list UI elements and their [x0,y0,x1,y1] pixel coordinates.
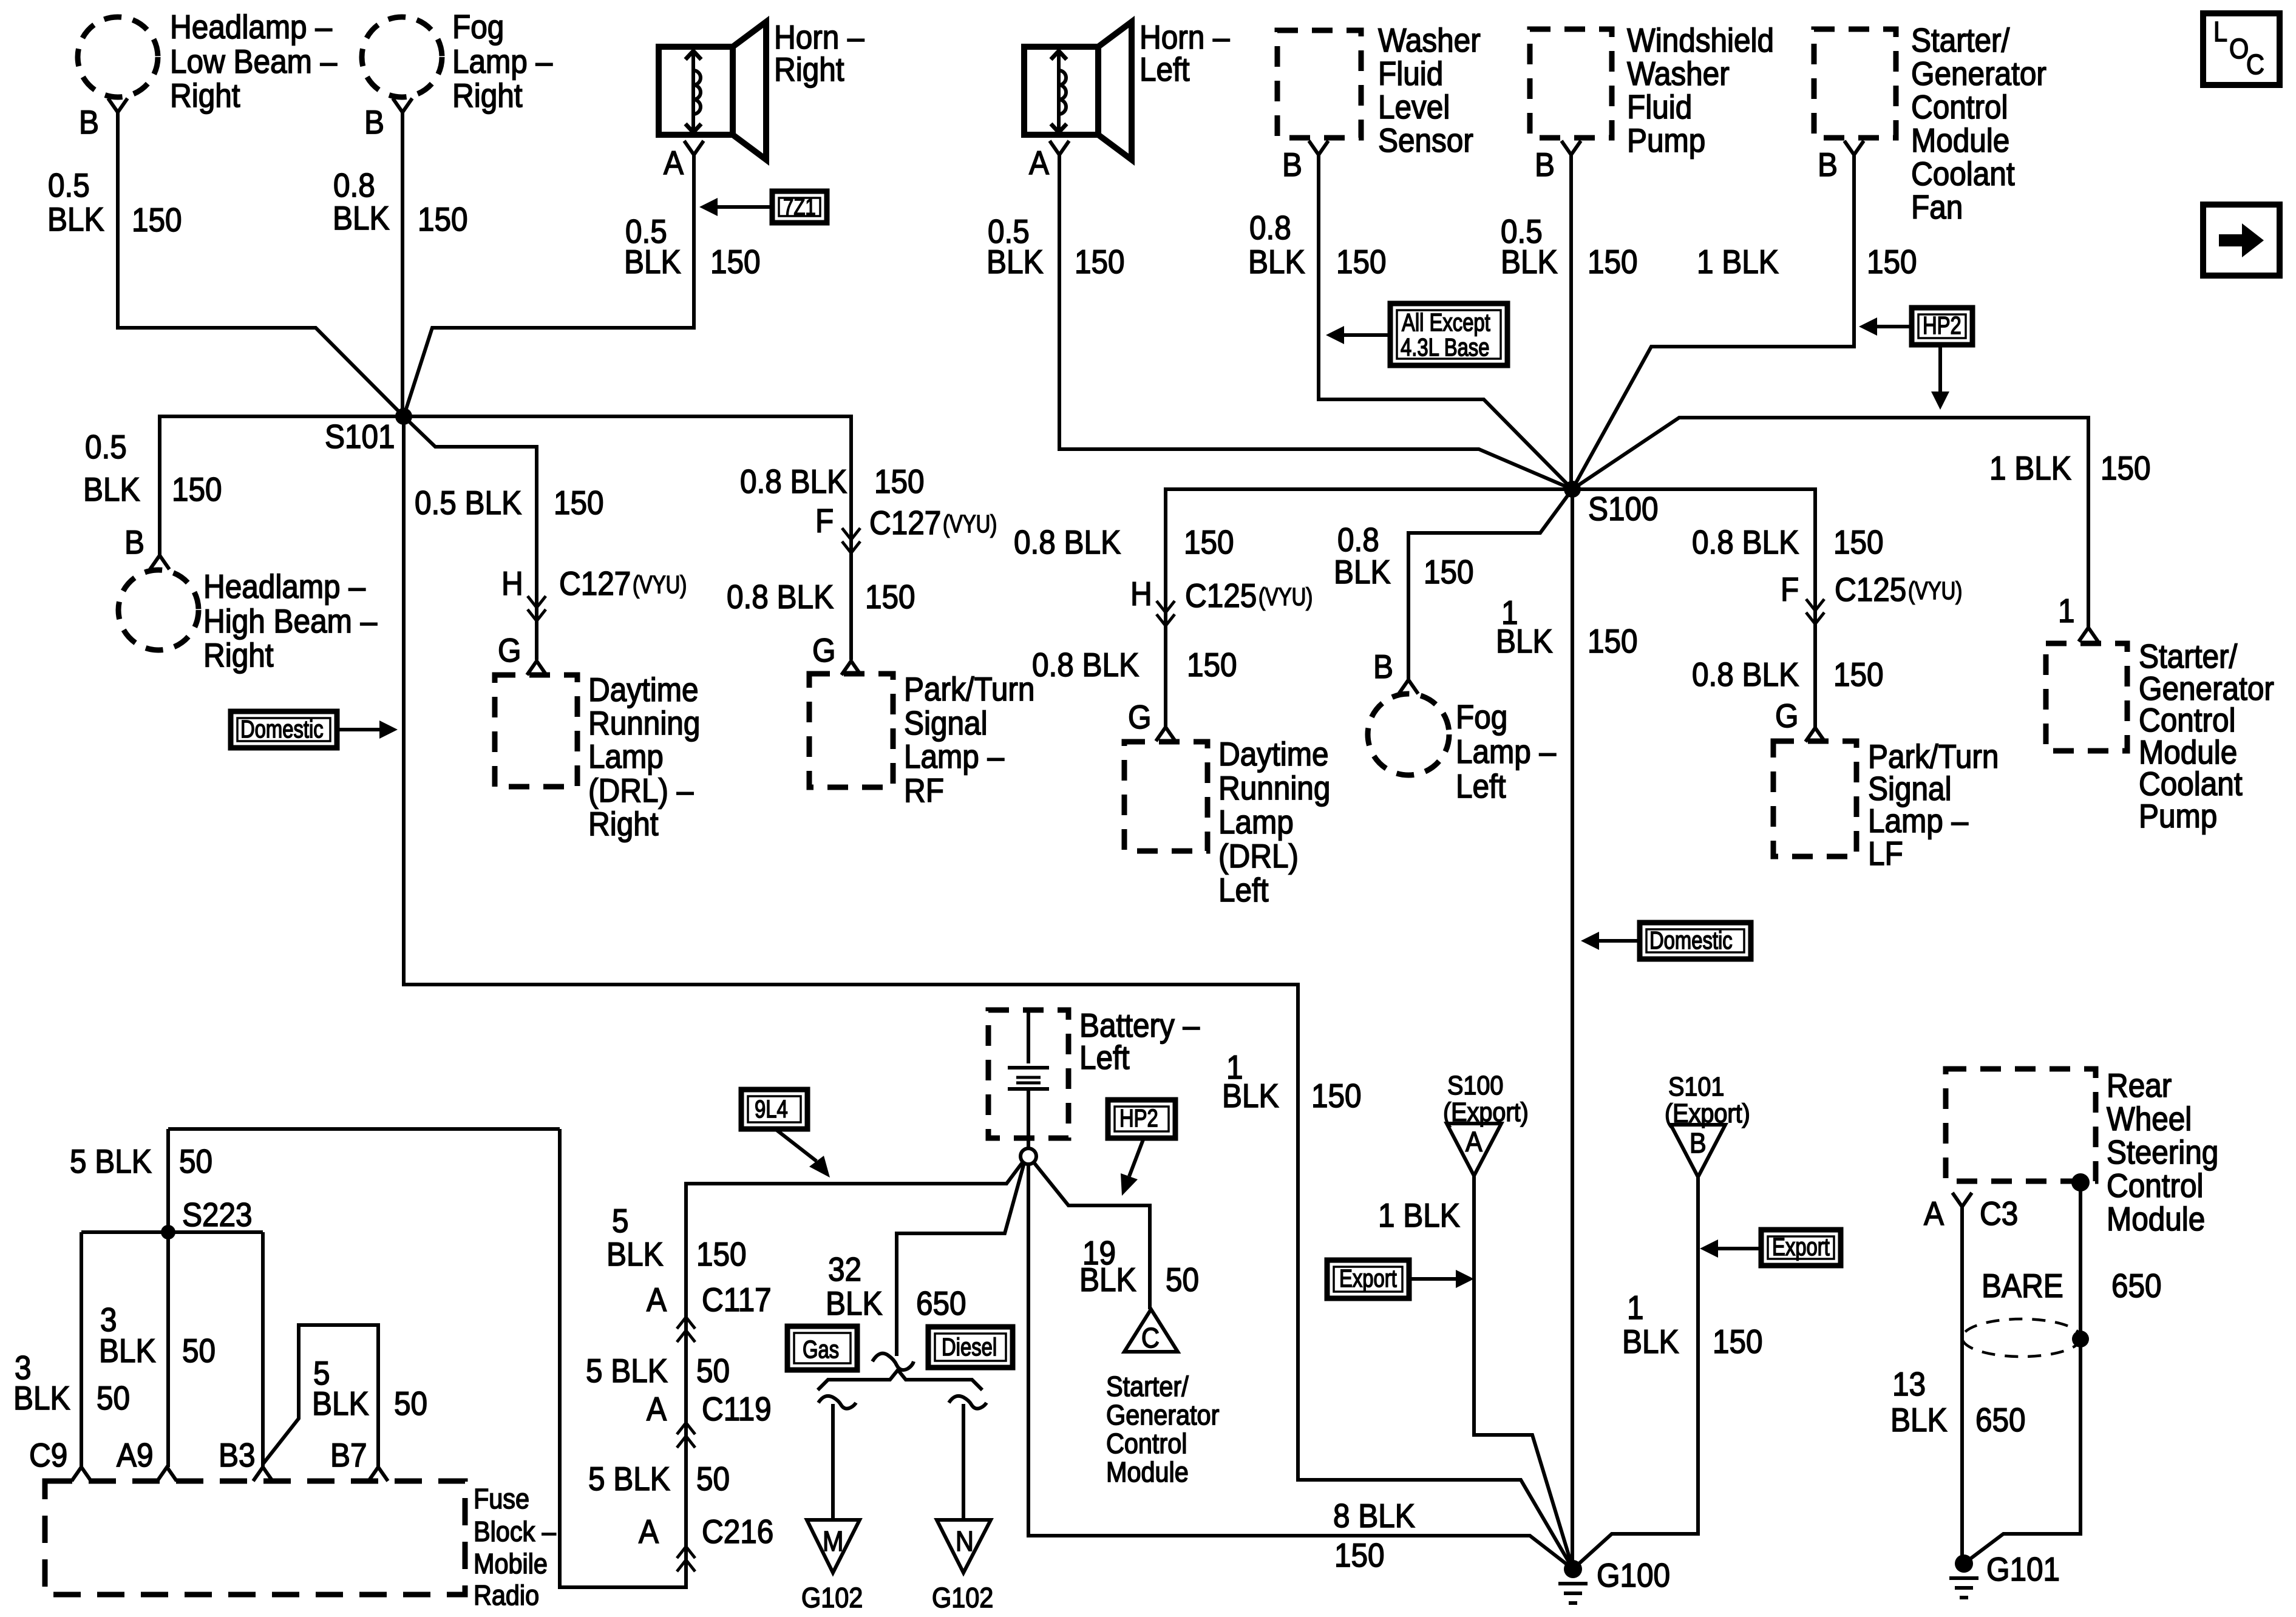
svg-text:B3: B3 [219,1437,256,1474]
svg-text:0.8 BLK: 0.8 BLK [727,579,834,616]
svg-text:BLK: BLK [987,244,1044,281]
svg-text:BLK: BLK [1248,244,1305,281]
wire 8 BLK 150 battery node to G100 [1028,1164,1573,1569]
svg-text:50: 50 [97,1380,130,1417]
svg-text:Wheel: Wheel [2107,1101,2192,1138]
svg-text:Fan: Fan [1911,189,1963,226]
svg-text:5 BLK: 5 BLK [586,1353,668,1390]
svg-text:Right: Right [588,806,659,843]
flag HP2 battery with arrow [1108,1100,1175,1196]
wire 0.5 BLK 150 horn left to S100 [1059,155,1572,489]
flag Gas box [787,1326,857,1370]
svg-text:32: 32 [828,1252,861,1289]
label Fog Lamp Left [1456,699,1557,805]
svg-text:650: 650 [916,1286,966,1323]
svg-text:B: B [364,104,384,141]
svg-text:150: 150 [172,472,222,509]
svg-text:Module: Module [2107,1201,2205,1238]
svg-text:50: 50 [1166,1262,1199,1299]
wire 1 BLK 150 S100 down to G100 [1571,489,1574,1569]
wire S223 to B3 [261,1232,265,1467]
node S101 splice [395,408,412,425]
component Washer Fluid Level Sensor (dashed box) [1277,30,1361,138]
svg-text:Low Beam –: Low Beam – [170,44,338,81]
flag Domestic left with arrow [231,711,398,748]
svg-text:150: 150 [710,244,761,281]
svg-text:B: B [1690,1128,1707,1159]
lamp E4 Fog Lamp Left (dashed circle) [1368,694,1449,775]
svg-text:Level: Level [1378,89,1450,126]
wire label 5 BLK 50 (C117-C119) [586,1353,730,1390]
svg-text:Fog: Fog [1456,699,1507,736]
svg-text:BLK: BLK [47,202,104,239]
svg-text:Lamp –: Lamp – [1456,734,1557,771]
label Windshield Washer Fluid Pump [1627,22,1774,160]
wire 1 BLK 150 S101 down to G100 [404,416,1573,1569]
svg-text:150: 150 [1334,1537,1385,1575]
wire label 5 BLK 50 (C119-C216) [588,1461,730,1498]
wire 3 BLK 50 S223 to C9 [80,1232,83,1467]
svg-text:G: G [1128,699,1152,736]
label Starter/Generator Control Module Coolant Pump [2139,639,2274,835]
label Battery Left [1079,1008,1200,1077]
node S100 splice [1564,481,1581,498]
svg-text:C117: C117 [702,1282,772,1319]
label Starter/Generator Control Module Coolant Fan [1911,22,2046,226]
label Park/Turn Signal Lamp LF [1868,739,1999,873]
svg-text:Module: Module [1106,1457,1189,1488]
svg-text:A: A [1924,1196,1944,1233]
wire label 0.5 BLK 150 (headlamp low) [47,168,182,239]
svg-text:150: 150 [1424,554,1474,591]
wire 0.8 BLK 150 S100 to C125 pin F [1572,489,1815,728]
component Battery Left (dashed box) [988,1010,1068,1138]
svg-text:150: 150 [696,1236,747,1273]
horn right symbol [659,22,766,160]
pin B of headlamp low beam [79,98,127,141]
svg-text:A: A [1029,145,1049,182]
svg-text:Lamp –: Lamp – [1868,803,1969,840]
svg-text:BLK: BLK [312,1386,369,1423]
svg-text:150: 150 [1833,657,1884,694]
svg-text:Export: Export [1772,1232,1830,1260]
pin A of rear wheel module connector C3 [1924,1193,2018,1233]
wire label 19 BLK 50 [1079,1235,1199,1299]
label Fuse Block Mobile Radio [474,1483,556,1612]
svg-text:150: 150 [1867,244,1917,281]
svg-text:50: 50 [696,1353,730,1390]
svg-text:Fluid: Fluid [1627,89,1692,126]
svg-text:0.8 BLK: 0.8 BLK [1032,647,1139,684]
svg-text:Running: Running [1218,770,1330,807]
svg-text:1: 1 [1627,1290,1644,1327]
label Headlamp High Beam Right [203,569,378,674]
svg-text:Right: Right [170,78,240,115]
svg-text:150: 150 [1311,1078,1362,1115]
svg-text:Control: Control [2139,702,2236,739]
svg-text:Left: Left [1456,768,1506,805]
svg-text:150: 150 [1187,647,1237,684]
node S223 splice [161,1225,175,1239]
terminal N triangle ground G102 diesel [932,1520,993,1614]
svg-text:Daytime: Daytime [588,672,699,709]
wire label 0.5 BLK 150 (washer pump) [1501,214,1638,281]
wire label BARE 650 [1982,1268,2162,1305]
label Rear Wheel Steering Control Module [2107,1068,2218,1238]
svg-text:A: A [639,1514,659,1551]
svg-text:Rear: Rear [2107,1068,2172,1105]
ground G100 [1558,1558,1670,1603]
svg-text:9L4: 9L4 [755,1094,788,1122]
wire 1 BLK 150 S100 to coolant pump [1572,418,2088,628]
svg-text:150: 150 [554,485,604,522]
wire 0.8 BLK 150 fog lamp right to S101 [401,112,404,416]
svg-text:Right: Right [774,52,844,89]
wire 0.8 BLK 150 S101 to C127 pin F [404,416,851,660]
svg-text:B: B [79,104,99,141]
battery symbol [1008,1010,1049,1148]
shield ellipse (dashed) [1962,1319,2081,1357]
pin G of park/turn RF [812,632,861,675]
wire 1 BLK 150 coolant fan to S100 [1572,155,1854,489]
svg-text:150: 150 [1184,524,1234,561]
pin B of washer fluid level sensor [1282,141,1328,184]
svg-text:Starter/: Starter/ [1106,1371,1189,1403]
wire label 5 BLK 50 (B7) [312,1355,427,1423]
svg-text:Generator: Generator [1106,1400,1219,1431]
ground G101 [1949,1551,2060,1598]
svg-text:Domestic: Domestic [240,714,324,742]
svg-text:8 BLK: 8 BLK [1333,1498,1415,1535]
svg-text:S100: S100 [1447,1070,1503,1100]
svg-text:F: F [1781,572,1799,609]
svg-text:G: G [1775,698,1799,735]
label Park/Turn Signal Lamp RF [904,671,1034,810]
svg-text:(VYU): (VYU) [1258,582,1313,610]
svg-text:Control: Control [1106,1428,1187,1460]
connector C216 pin A (inline) [639,1514,773,1571]
svg-text:BLK: BLK [624,244,681,281]
svg-text:Lamp: Lamp [588,739,664,776]
svg-text:Coolant: Coolant [2139,766,2243,803]
svg-text:Gas: Gas [803,1335,839,1363]
wire label 3 BLK 50 (C9) [13,1350,130,1417]
svg-text:M: M [823,1526,843,1558]
lamp E3 Headlamp High Beam Right (dashed circle) [118,570,199,650]
wire label 0.5 BLK 150 (horn left) [987,214,1125,281]
svg-text:Washer: Washer [1627,56,1730,93]
lamp E1 Headlamp Low Beam Right (dashed circle) [78,17,158,97]
node battery splice (open circle) [1021,1148,1036,1164]
svg-text:Headlamp –: Headlamp – [203,569,366,606]
svg-text:C125: C125 [1835,572,1906,609]
svg-text:Washer: Washer [1378,22,1481,59]
svg-text:150: 150 [1713,1324,1763,1361]
svg-text:High Beam –: High Beam – [203,603,378,640]
svg-text:Headlamp –: Headlamp – [170,9,333,46]
svg-text:G101: G101 [1986,1551,2060,1588]
label Starter/Generator Control Module (C) [1106,1371,1219,1488]
svg-text:5 BLK: 5 BLK [70,1144,152,1181]
svg-text:C119: C119 [702,1391,772,1428]
wire label 8 BLK 150 [1333,1498,1415,1575]
wire label 0.8 BLK 150 (washer level) [1248,210,1387,281]
svg-text:13: 13 [1892,1366,1926,1403]
svg-text:50: 50 [182,1333,216,1370]
wire 5 BLK 50 jumper B3 to B7 [263,1325,378,1467]
svg-text:150: 150 [132,202,182,239]
connector C127 pin F (inline) [815,503,997,553]
svg-text:G: G [812,632,836,670]
svg-text:A: A [647,1282,667,1319]
wire 0.5 BLK 150 headlamp low beam to S101 [118,112,404,416]
wire 3 BLK 50 S223 to A9 [166,1232,170,1467]
wire label 13 BLK 650 [1890,1366,2026,1439]
component Fuse Block Mobile Radio (dashed box) [45,1481,465,1595]
wire to ground N [962,1404,965,1520]
brace gas/diesel split [818,1370,982,1390]
svg-text:0.8 BLK: 0.8 BLK [1692,657,1799,694]
svg-text:(DRL): (DRL) [1218,838,1299,875]
svg-text:BLK: BLK [99,1333,156,1370]
symbol LOC box (top right) [2203,13,2280,85]
svg-text:BLK: BLK [1890,1402,1948,1439]
svg-text:150: 150 [2101,450,2151,487]
pin B of fog lamp left [1373,649,1418,694]
svg-text:150: 150 [1075,244,1125,281]
wire label 1 BLK 150 (S100 down) [1496,595,1638,660]
pin A of horn left [1029,141,1069,182]
svg-text:Mobile: Mobile [474,1548,548,1580]
svg-text:BLK: BLK [1334,554,1391,591]
wire 13 BLK 650 C3-A to G101 [1960,1207,1964,1564]
svg-text:Fuse: Fuse [474,1483,529,1515]
terminal S101 (Export) triangle B [1665,1071,1750,1177]
svg-text:7Z1: 7Z1 [783,194,816,220]
wire label 1 BLK 150 (coolant pump) [1989,450,2151,487]
wire label 0.5 BLK 150 (high beam) [83,429,222,509]
symbol right-arrow box (top right) [2203,205,2280,276]
wire 0.5 BLK 150 S101 to headlamp high beam [160,416,404,555]
svg-text:5 BLK: 5 BLK [588,1461,670,1498]
wire label 1 BLK 150 (S101 export) [1622,1290,1763,1361]
svg-text:BLK: BLK [1501,244,1558,281]
pin C9 of fuse block [29,1437,91,1481]
svg-text:BARE: BARE [1982,1268,2063,1305]
svg-text:All Except: All Except [1402,308,1490,336]
svg-text:B: B [1818,147,1838,184]
svg-text:G102: G102 [801,1582,863,1614]
svg-text:A: A [1466,1127,1483,1158]
svg-text:Sensor: Sensor [1378,123,1473,160]
svg-text:Module: Module [1911,123,2009,160]
svg-text:Daytime: Daytime [1218,736,1329,773]
svg-text:50: 50 [696,1461,730,1498]
svg-text:0.5: 0.5 [48,168,90,205]
svg-text:HP2: HP2 [1923,311,1961,339]
svg-text:Fluid: Fluid [1378,56,1443,93]
svg-text:Coolant: Coolant [1911,156,2015,193]
svg-text:Generator: Generator [1911,56,2046,93]
svg-text:150: 150 [418,202,468,239]
wire S223 horizontal [81,1230,263,1234]
flag 7Z1 with arrow [699,191,827,223]
svg-text:S101: S101 [1668,1071,1724,1101]
svg-text:Block –: Block – [474,1516,556,1548]
wire label 0.8 BLK 150 (fog right) [333,168,468,239]
svg-text:BLK: BLK [1079,1262,1136,1299]
svg-text:Diesel: Diesel [942,1332,997,1360]
svg-text:Left: Left [1140,52,1190,89]
wire 5 BLK 150 battery node to C117 [560,1129,1023,1587]
svg-text:B: B [1373,649,1393,686]
svg-text:4.3L Base: 4.3L Base [1401,333,1489,361]
svg-text:50: 50 [394,1386,427,1423]
wire label 0.8 BLK 150 (below C125 F) [1692,657,1884,694]
svg-text:C: C [2246,49,2264,81]
svg-text:N: N [956,1526,974,1558]
wire to ground M [831,1404,835,1520]
svg-text:Windshield: Windshield [1627,22,1774,59]
svg-text:B7: B7 [330,1437,367,1474]
svg-text:Running: Running [588,705,700,742]
wire label 1 BLK 150 (S101 to G100) [1222,1049,1362,1115]
svg-text:Steering: Steering [2107,1134,2218,1171]
svg-text:H: H [1130,576,1152,613]
pin B of fog lamp right [364,98,412,141]
svg-text:(VYU): (VYU) [633,570,687,598]
svg-text:Control: Control [2107,1168,2204,1205]
break symbol on 32 BLK wire [872,1354,914,1370]
pin G of DRL right [498,632,546,675]
wire label 0.8 BLK 150 (above C125 H) [1014,524,1234,561]
pin B of headlamp high beam [124,524,169,569]
svg-text:Export: Export [1339,1264,1397,1292]
svg-text:Radio: Radio [474,1580,539,1612]
svg-text:1 BLK: 1 BLK [1989,450,2071,487]
wire 1 BLK 150 S101 export to G100 [1573,1177,1698,1569]
svg-text:650: 650 [1975,1402,2026,1439]
svg-text:BLK: BLK [1622,1324,1679,1361]
svg-text:Battery –: Battery – [1079,1008,1200,1045]
wire label 0.8 BLK 150 (above C127 F) [740,464,925,501]
svg-text:A9: A9 [117,1437,154,1474]
node shield junction [2072,1331,2089,1347]
svg-text:G: G [498,632,521,670]
label Horn Left [1140,19,1230,89]
node on rear wheel module bottom edge [2071,1173,2090,1192]
svg-text:B: B [1535,147,1555,184]
svg-text:Lamp: Lamp [1218,804,1294,841]
svg-text:0.8 BLK: 0.8 BLK [1014,524,1121,561]
svg-text:BLK: BLK [13,1380,70,1417]
svg-text:Signal: Signal [1868,771,1952,808]
svg-text:150: 150 [1833,524,1884,561]
svg-text:BLK: BLK [83,472,140,509]
svg-text:Starter/: Starter/ [1911,22,2010,59]
pin A of horn right [664,141,704,182]
svg-text:5: 5 [612,1203,629,1240]
wire 0.5 BLK 150 horn right to S101 [404,155,694,416]
lamp E2 Fog Lamp Right (dashed circle) [362,17,442,97]
svg-text:0.8: 0.8 [333,168,375,205]
svg-text:Horn –: Horn – [1140,19,1230,56]
svg-text:LF: LF [1868,836,1903,873]
connector C117 pin A (inline) [647,1282,772,1342]
svg-text:0.5 BLK: 0.5 BLK [415,485,521,522]
label Washer Fluid Level Sensor [1378,22,1481,160]
break symbol on N wire [949,1396,987,1409]
svg-text:S100: S100 [1588,491,1659,528]
svg-text:C127: C127 [869,505,941,542]
svg-text:Domestic: Domestic [1649,926,1733,954]
svg-text:H: H [501,566,523,603]
svg-text:(DRL) –: (DRL) – [588,773,694,810]
flag All Except 4.3L Base with arrow [1326,303,1507,365]
svg-text:A: A [647,1391,667,1428]
svg-text:0.8: 0.8 [1337,522,1379,559]
terminal C triangle (Starter/Generator Control Module) [1124,1309,1178,1354]
svg-text:Pump: Pump [2139,798,2217,835]
svg-text:HP2: HP2 [1119,1103,1158,1131]
svg-text:0.5: 0.5 [85,429,127,466]
flag Export left with arrow [1327,1260,1474,1298]
svg-text:C216: C216 [702,1514,773,1551]
svg-text:1 BLK: 1 BLK [1378,1198,1460,1235]
wire 0.8 BLK 150 washer level sensor to S100 [1319,155,1572,489]
terminal S100 (Export) triangle A [1443,1070,1529,1176]
svg-text:S101: S101 [325,419,395,456]
svg-text:Control: Control [1911,89,2008,126]
component Park/Turn Signal Lamp LF (dashed box) [1773,741,1856,856]
svg-text:Park/Turn: Park/Turn [1868,739,1999,776]
label Fog Lamp Right [452,9,553,115]
svg-text:RF: RF [904,773,944,810]
wire label 32 BLK 650 [826,1252,966,1323]
svg-text:BLK: BLK [826,1286,883,1323]
svg-text:Lamp –: Lamp – [452,44,553,81]
svg-text:BLK: BLK [1222,1078,1279,1115]
svg-text:150: 150 [874,464,925,501]
pin B7 of fuse block [330,1437,388,1481]
svg-text:0.8 BLK: 0.8 BLK [740,464,847,501]
pin B3 of fuse block [219,1437,273,1481]
wire label 0.8 BLK 150 (below C125 H) [1032,647,1237,684]
svg-text:A: A [664,145,684,182]
svg-text:Right: Right [452,78,523,115]
svg-text:Lamp –: Lamp – [904,739,1005,776]
connector C125 pin F (inline) [1781,572,1962,624]
label Horn Right [774,19,864,89]
label Headlamp Low Beam Right [170,9,338,115]
svg-text:L: L [2213,16,2227,48]
svg-text:50: 50 [179,1144,212,1181]
svg-text:BLK: BLK [333,200,390,237]
svg-text:F: F [815,503,834,540]
pin B of windshield washer fluid pump [1535,141,1581,184]
component Daytime Running Lamp DRL Right (dashed box) [495,675,577,787]
component Park/Turn Signal Lamp RF (dashed box) [809,674,893,787]
label Daytime Running Lamp (DRL) Right [588,672,700,843]
svg-text:Fog: Fog [452,9,504,46]
wire 0.8 BLK 150 S100 to C125 pin H [1166,489,1572,727]
svg-text:150: 150 [1588,623,1638,660]
wire label 0.8 BLK 150 (fog left) [1334,522,1474,591]
pin B of coolant fan [1818,141,1864,184]
flag 9L4 with arrow [741,1090,830,1178]
svg-text:Horn –: Horn – [774,19,864,56]
wire label 1 BLK 150 (coolant fan) [1697,244,1917,281]
